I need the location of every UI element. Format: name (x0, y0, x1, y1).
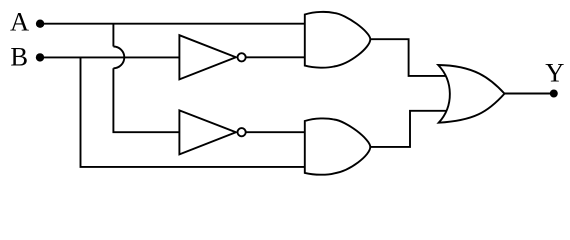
svg-text:B: B (10, 42, 28, 72)
NOT gate U2 bubble (238, 128, 246, 136)
wire G2 output route to OR gate G3 lower input (370, 111, 446, 147)
AND gate G2 (bottom) (305, 118, 371, 174)
NOT gate U2 triangle (bottom inverter) (179, 110, 236, 154)
wire A branch vertical lower segment to NOT gate U2 (113, 68, 181, 132)
svg-text:Y: Y (545, 58, 564, 88)
NOT gate U1 triangle (top inverter) (179, 35, 236, 79)
wire B branch vertical and bottom horizontal to AND gate G2 (81, 57, 307, 166)
output terminal dot Y (550, 90, 558, 98)
wire A horizontal to AND gate G1 (40, 23, 306, 25)
wire A branch vertical upper segment (112, 24, 114, 47)
wire U1 output to AND gate G1 (246, 56, 306, 58)
input terminal dot B (36, 53, 44, 61)
OR gate G3 (438, 65, 504, 123)
wire G1 output route to OR gate G3 upper input (370, 39, 446, 76)
wire U2 output to AND gate G2 (246, 131, 306, 133)
wire hop: A branch crossing over wire B (113, 46, 124, 68)
wire B horizontal to NOT gate U1 (40, 56, 181, 58)
svg-text:A: A (10, 6, 29, 36)
input terminal dot A (36, 20, 44, 28)
AND gate G1 (top) (305, 12, 371, 68)
NOT gate U1 bubble (238, 53, 246, 61)
wire G3 output to terminal Y (505, 93, 554, 95)
